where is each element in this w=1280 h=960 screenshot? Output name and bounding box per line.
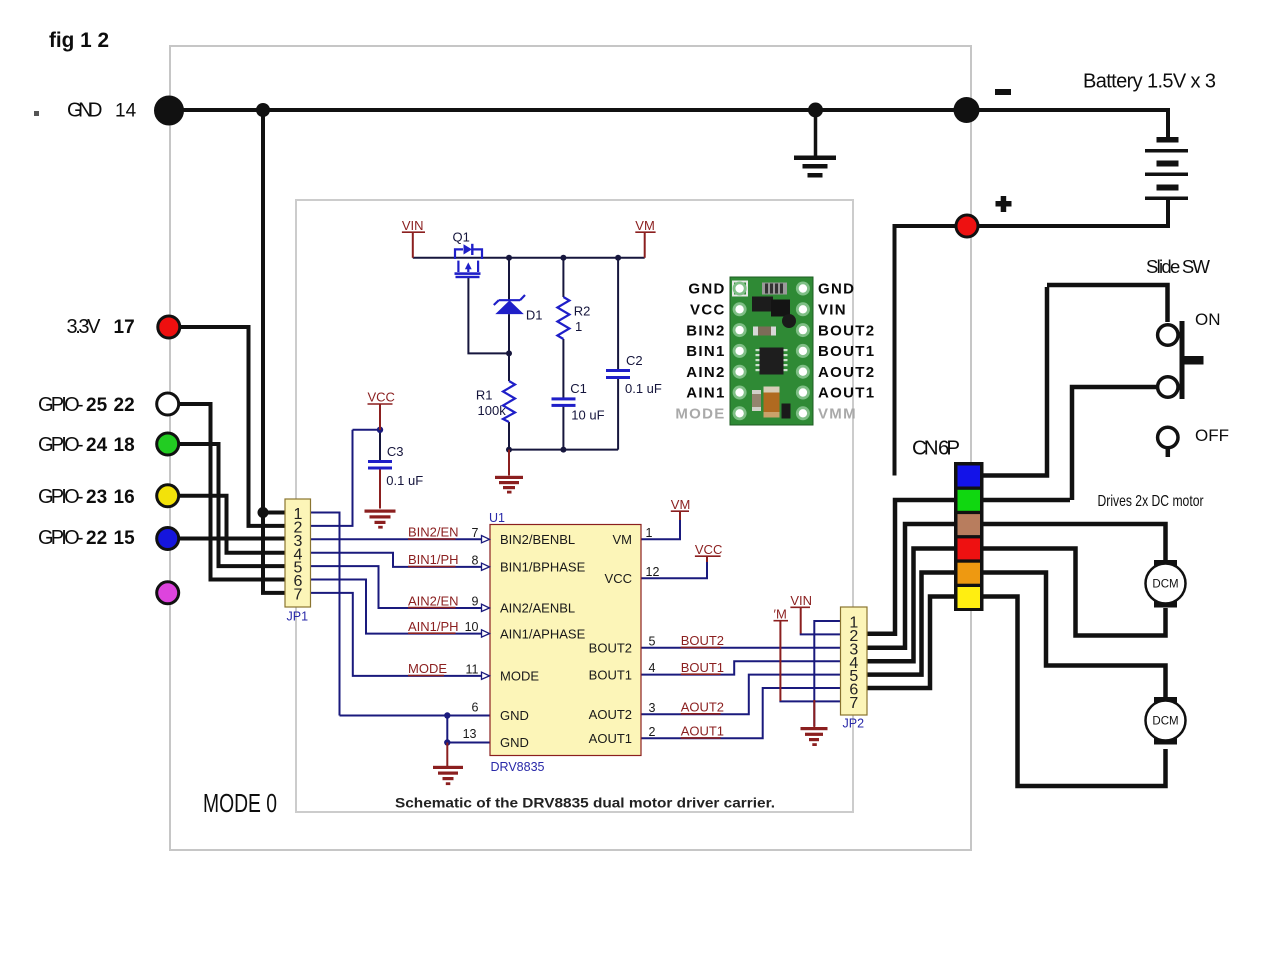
svg-text:CN 6P: CN 6P	[912, 437, 960, 460]
svg-text:GND: GND	[688, 281, 725, 298]
svg-text:VMM: VMM	[818, 406, 857, 423]
svg-text:AIN1: AIN1	[686, 385, 725, 402]
svg-text:BIN2: BIN2	[686, 322, 725, 339]
svg-text:24: 24	[86, 435, 108, 456]
svg-text:DCM: DCM	[1152, 716, 1178, 728]
svg-text:fig 1 2: fig 1 2	[49, 29, 109, 52]
svg-text:GPIO-: GPIO-	[38, 434, 84, 456]
svg-text:DCM: DCM	[1152, 579, 1178, 591]
svg-text:GND: GND	[67, 100, 103, 122]
svg-text:MODE: MODE	[675, 406, 725, 423]
svg-text:17: 17	[114, 317, 135, 338]
svg-text:Battery 1.5V x 3: Battery 1.5V x 3	[1083, 71, 1216, 93]
svg-text:BIN1: BIN1	[686, 343, 725, 360]
svg-text:14: 14	[115, 101, 137, 122]
svg-text:GPIO-: GPIO-	[38, 486, 84, 508]
svg-text:15: 15	[114, 528, 136, 549]
svg-text:OFF: OFF	[1195, 426, 1229, 445]
svg-text:VIN: VIN	[818, 302, 847, 319]
svg-text:23: 23	[86, 487, 107, 508]
svg-text:AOUT2: AOUT2	[818, 364, 875, 381]
svg-text:GPIO-: GPIO-	[38, 527, 84, 549]
svg-text:Drives 2x DC motor: Drives 2x DC motor	[1098, 493, 1205, 510]
svg-text:BOUT1: BOUT1	[818, 343, 875, 360]
svg-text:3.3V: 3.3V	[67, 316, 102, 338]
svg-text:VCC: VCC	[690, 302, 726, 319]
svg-text:25: 25	[86, 395, 108, 416]
svg-text:AOUT1: AOUT1	[818, 385, 875, 402]
svg-text:MODE 0: MODE 0	[203, 788, 277, 818]
svg-text:GND: GND	[818, 281, 855, 298]
svg-text:16: 16	[114, 487, 135, 508]
svg-text:GPIO-: GPIO-	[38, 394, 84, 416]
svg-text:BOUT2: BOUT2	[818, 322, 875, 339]
svg-text:Schematic of the DRV8835 dual: Schematic of the DRV8835 dual motor driv…	[395, 795, 775, 811]
svg-text:ON: ON	[1195, 310, 1221, 329]
svg-text:22: 22	[114, 395, 135, 416]
svg-text:Slide SW: Slide SW	[1146, 256, 1211, 277]
svg-text:18: 18	[114, 435, 135, 456]
svg-text:22: 22	[86, 528, 107, 549]
svg-text:AIN2: AIN2	[686, 364, 725, 381]
